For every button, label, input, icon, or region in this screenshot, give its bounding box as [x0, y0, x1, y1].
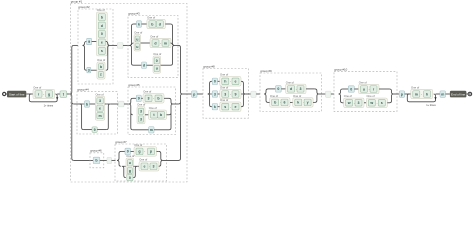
- group #10: [334, 68, 397, 112]
- svg-text:-: -: [230, 105, 231, 109]
- svg-text:6: 6: [284, 101, 286, 105]
- wire: [141, 42, 150, 44]
- wire group1-tealC: [183, 93, 192, 95]
- anchor End of line: [450, 91, 467, 98]
- wire: [133, 97, 137, 99]
- svg-text:e: e: [235, 105, 237, 109]
- wire literalB-group1: [67, 93, 70, 95]
- pale box D between group4 and group5: [119, 101, 125, 107]
- anchor Start of line: [7, 91, 26, 98]
- wire: [161, 64, 171, 66]
- wire: [134, 64, 142, 66]
- svg-text:g: g: [48, 92, 50, 96]
- svg-text:One of: One of: [153, 52, 161, 56]
- svg-text:group #5: group #5: [128, 83, 140, 87]
- svg-text:group #1: group #1: [71, 0, 83, 3]
- svg-text:y: y: [307, 101, 309, 105]
- svg-text:9: 9: [88, 40, 90, 44]
- svg-text:3: 3: [358, 101, 360, 105]
- svg-text:m: m: [164, 41, 167, 45]
- svg-text:3: 3: [148, 97, 150, 101]
- svg-text:1+ times: 1+ times: [426, 104, 436, 107]
- svg-text:9: 9: [235, 92, 237, 96]
- escape box group3 row3: [142, 62, 147, 68]
- svg-text:h: h: [426, 92, 428, 96]
- wire: [364, 102, 366, 104]
- wire group3 exit: [175, 44, 179, 46]
- svg-text:group #10: group #10: [334, 68, 347, 72]
- escape box group9 row1: [276, 86, 282, 92]
- charset pair group8 row1: [220, 73, 241, 86]
- wire: [306, 88, 315, 90]
- charset pair group8 row3: [220, 98, 241, 111]
- charset 2-stack group3 row2: [134, 31, 143, 51]
- svg-text:s: s: [224, 105, 226, 109]
- charset 3-stack group4: [95, 92, 105, 120]
- svg-text:group #2: group #2: [78, 5, 90, 9]
- svg-text:One of: One of: [134, 31, 142, 35]
- svg-text:h: h: [224, 80, 226, 84]
- svg-text:3: 3: [224, 92, 226, 96]
- escape box H on main line: [399, 91, 404, 97]
- group7 split: [117, 151, 121, 166]
- group #4: [77, 88, 117, 134]
- svg-text:One of: One of: [367, 94, 375, 98]
- group7 row2 inner merge: [133, 166, 137, 177]
- svg-text:-: -: [369, 87, 370, 91]
- svg-text:w: w: [347, 101, 351, 105]
- svg-text:3: 3: [140, 117, 142, 121]
- svg-text:One of: One of: [150, 34, 158, 38]
- svg-text:d: d: [101, 24, 103, 28]
- wire: [218, 93, 220, 95]
- wire paleF-group9: [256, 93, 260, 95]
- svg-text:d: d: [290, 87, 292, 91]
- svg-text:0: 0: [277, 87, 279, 91]
- svg-text:One of: One of: [147, 15, 155, 19]
- wire: [137, 165, 139, 167]
- svg-text:group #6: group #6: [90, 149, 102, 153]
- svg-text:3: 3: [99, 99, 101, 103]
- svg-text:One of: One of: [220, 73, 228, 77]
- wire group4-paleD: [110, 103, 118, 105]
- wire tealH-charsetZ: [405, 93, 411, 95]
- svg-text:-: -: [160, 41, 161, 45]
- wire group7 exit: [163, 159, 179, 161]
- svg-text:0: 0: [156, 59, 158, 63]
- svg-text:s: s: [381, 101, 383, 105]
- group3 merge: [171, 24, 175, 65]
- svg-text:9: 9: [94, 128, 96, 132]
- wire: [133, 129, 149, 131]
- literal box group4 branch2: [92, 127, 97, 132]
- svg-text:m: m: [150, 128, 153, 132]
- svg-text:k: k: [138, 22, 140, 26]
- svg-text:group #3: group #3: [128, 11, 140, 15]
- svg-text:9: 9: [138, 97, 140, 101]
- wire group6-paleE: [100, 159, 107, 161]
- svg-text:0: 0: [129, 176, 131, 180]
- escape box in group2 branch2: [87, 67, 91, 73]
- charset pair group5 row2: [149, 106, 167, 119]
- svg-text:One of: One of: [126, 154, 134, 158]
- wire charsetA-literalB: [57, 93, 60, 95]
- escape box group8 row2: [212, 91, 217, 97]
- svg-text:u: u: [129, 161, 131, 165]
- svg-text:group #8: group #8: [203, 64, 215, 68]
- svg-text:u: u: [136, 45, 138, 49]
- svg-text:Start of line: Start of line: [9, 92, 25, 96]
- svg-text:e: e: [144, 165, 146, 169]
- wire: [290, 101, 293, 103]
- wire anchor-charsetA: [26, 93, 33, 95]
- svg-text:-: -: [376, 101, 377, 105]
- charset pair group8 row2: [220, 85, 241, 98]
- wire: [145, 114, 149, 116]
- charset pair group10 row2a: [344, 94, 364, 107]
- svg-text:-: -: [230, 79, 231, 83]
- svg-text:1+ times: 1+ times: [44, 105, 54, 108]
- wire: [92, 41, 97, 43]
- end pin: [468, 92, 472, 96]
- wire: [268, 88, 276, 90]
- svg-text:One of: One of: [220, 98, 228, 102]
- group10 merge: [390, 89, 394, 103]
- svg-text:e: e: [99, 106, 101, 110]
- svg-text:s: s: [101, 49, 103, 53]
- svg-text:m: m: [441, 92, 444, 96]
- wire tealI-endanchor: [446, 93, 450, 95]
- charset pair group9 row1: [286, 80, 306, 93]
- group10 split: [339, 89, 343, 103]
- svg-text:3: 3: [140, 110, 142, 114]
- wire group9-paleG: [319, 93, 326, 95]
- charset pair group7 row2: [139, 158, 159, 171]
- group #5: [128, 83, 176, 135]
- svg-text:w: w: [369, 101, 373, 105]
- group5 merge: [169, 98, 173, 130]
- wire: [134, 23, 137, 25]
- group #8: [203, 64, 249, 118]
- svg-text:m: m: [98, 114, 101, 118]
- charset pair group3 row2: [150, 34, 171, 47]
- escape box group5 row3: [149, 127, 154, 133]
- svg-text:-: -: [230, 92, 231, 96]
- escape box in group2 branch1: [87, 38, 92, 44]
- svg-text:-: -: [421, 92, 422, 96]
- wire group8-paleF: [245, 93, 251, 95]
- svg-text:group #4: group #4: [77, 88, 89, 92]
- wire: [154, 129, 169, 131]
- svg-text:k: k: [214, 105, 216, 109]
- svg-text:0: 0: [127, 150, 129, 154]
- group9 merge: [315, 89, 319, 103]
- escape box group10 row1: [348, 86, 354, 92]
- svg-text:k: k: [297, 101, 299, 105]
- group4 merge: [106, 104, 110, 130]
- charset 2-stack group7 row2a: [126, 154, 135, 175]
- group7 merge: [159, 151, 163, 166]
- svg-text:-: -: [153, 96, 154, 100]
- svg-text:e: e: [101, 41, 103, 45]
- svg-text:One of: One of: [293, 94, 301, 98]
- group2 split: [83, 42, 87, 71]
- literal box group7 row2b: [127, 175, 133, 181]
- charset pair group5 row1: [143, 90, 164, 103]
- start pin: [3, 92, 6, 95]
- charset 2-stack group5 row2: [137, 103, 146, 124]
- svg-text:0: 0: [101, 32, 103, 36]
- wire: [343, 88, 349, 90]
- wire: [165, 23, 170, 25]
- group2 merge: [106, 42, 110, 71]
- wire to group4: [74, 103, 82, 105]
- svg-text:One of: One of: [96, 92, 104, 96]
- group7 row2 inner split: [122, 166, 126, 177]
- charset pair group3 row1: [147, 15, 165, 28]
- group5 split: [129, 98, 133, 130]
- wire group2-paleC: [110, 44, 118, 46]
- svg-text:0: 0: [350, 87, 352, 91]
- wire start-anchor: [6, 93, 7, 95]
- svg-text:-: -: [144, 150, 145, 154]
- charset 2-stack group3 row3: [153, 52, 162, 73]
- escape box group8 row1: [212, 78, 217, 84]
- svg-text:z: z: [100, 73, 102, 77]
- charset A (One of, range pair) with plus-loop: [33, 85, 55, 98]
- svg-text:g: g: [129, 169, 131, 173]
- wire group4 branch2: [84, 129, 92, 131]
- group1 branch split: [70, 45, 74, 160]
- escape box C on main line: [192, 91, 198, 97]
- charset Z (One of, range pair) with plus-loop: [411, 85, 433, 98]
- charset pair group10 row1: [359, 80, 380, 93]
- wire paleG-group10: [331, 93, 334, 95]
- svg-text:u: u: [363, 87, 365, 91]
- svg-text:One of: One of: [97, 8, 105, 12]
- wire: [90, 103, 96, 105]
- svg-text:group #7: group #7: [115, 140, 127, 144]
- wire paleC-group3: [123, 44, 130, 46]
- svg-text:g: g: [138, 150, 140, 154]
- wire: [91, 69, 97, 71]
- svg-text:One of: One of: [137, 103, 145, 107]
- wire: [164, 97, 169, 99]
- svg-text:One of: One of: [139, 158, 147, 162]
- wire charsetZ-tealI: [436, 93, 441, 95]
- escape box group4 branch1: [85, 101, 90, 107]
- svg-text:d: d: [159, 22, 161, 26]
- group4 split: [80, 104, 84, 130]
- svg-text:One of: One of: [286, 80, 294, 84]
- svg-text:One of: One of: [149, 106, 157, 110]
- svg-text:3: 3: [153, 165, 155, 169]
- charset pair group9 row2a: [270, 94, 290, 107]
- svg-text:d: d: [154, 41, 156, 45]
- wire paleD-group5: [124, 103, 129, 105]
- wire: [218, 106, 220, 108]
- wire group5 exit: [173, 103, 179, 105]
- group8 merge: [241, 81, 245, 106]
- charset pair group10 row2b: [366, 94, 387, 107]
- svg-text:3: 3: [214, 92, 216, 96]
- svg-text:e: e: [235, 80, 237, 84]
- charset 5-stack in group2: [97, 8, 108, 56]
- pale box F: [251, 91, 256, 97]
- wire group10-tealH: [394, 93, 400, 95]
- loop around charset A (1+ times): [29, 94, 58, 108]
- pale box G: [326, 91, 331, 97]
- svg-text:group #9: group #9: [260, 69, 272, 73]
- svg-text:One of: One of: [33, 85, 41, 89]
- svg-text:u: u: [156, 67, 158, 71]
- wire: [97, 129, 106, 131]
- pale box C between group2 and group3: [117, 43, 123, 49]
- charset pair group9 row2b: [293, 94, 313, 107]
- group #6: [90, 149, 104, 168]
- wire: [142, 23, 147, 25]
- svg-text:One of: One of: [344, 94, 352, 98]
- svg-text:One of: One of: [134, 143, 142, 147]
- wire to group6 row: [74, 159, 93, 161]
- group1 merge: [179, 45, 183, 160]
- loop around charset Z (1+ times): [407, 94, 436, 107]
- escape box group8 row3: [212, 104, 217, 110]
- pale box E: [107, 157, 112, 163]
- wire: [218, 80, 220, 82]
- group3 split: [130, 24, 134, 65]
- charset 2-stack in group2: [97, 58, 106, 79]
- wire tealC-group8: [197, 93, 203, 95]
- wire endanchor-endpin: [466, 93, 468, 95]
- wire: [147, 64, 154, 66]
- svg-text:0: 0: [214, 80, 216, 84]
- group #2: [78, 5, 113, 84]
- literal B: [60, 91, 67, 97]
- svg-text:-: -: [296, 87, 297, 91]
- group #9: [260, 69, 322, 112]
- group #7: [115, 140, 167, 181]
- svg-text:One of: One of: [411, 85, 419, 89]
- group #1 (outer alternation): [71, 0, 188, 182]
- escape box I before end anchor: [440, 91, 446, 97]
- wire to group2: [74, 44, 78, 46]
- svg-text:One of: One of: [143, 90, 151, 94]
- wire: [379, 88, 390, 90]
- svg-text:-: -: [354, 101, 355, 105]
- svg-text:One of: One of: [220, 85, 228, 89]
- svg-text:-: -: [43, 92, 44, 96]
- svg-text:3: 3: [300, 87, 302, 91]
- escape box group3 row1: [137, 21, 142, 27]
- svg-text:One of: One of: [359, 80, 367, 84]
- svg-text:One of: One of: [270, 94, 278, 98]
- escape box group5 row1: [136, 95, 141, 101]
- charset pair group7 row1: [134, 143, 157, 156]
- escape box group7 row1: [125, 148, 131, 154]
- svg-text:3: 3: [88, 68, 90, 72]
- svg-text:u: u: [136, 37, 138, 41]
- wire paleE-group7: [112, 159, 116, 161]
- group #3: [128, 11, 178, 77]
- escape box group6: [93, 157, 100, 163]
- svg-text:d: d: [143, 63, 145, 67]
- group9 split: [264, 89, 268, 103]
- svg-text:End of line: End of line: [451, 92, 466, 96]
- group8 split: [208, 81, 212, 106]
- svg-text:m: m: [415, 92, 418, 96]
- svg-text:One of: One of: [97, 58, 105, 62]
- wire: [121, 150, 125, 152]
